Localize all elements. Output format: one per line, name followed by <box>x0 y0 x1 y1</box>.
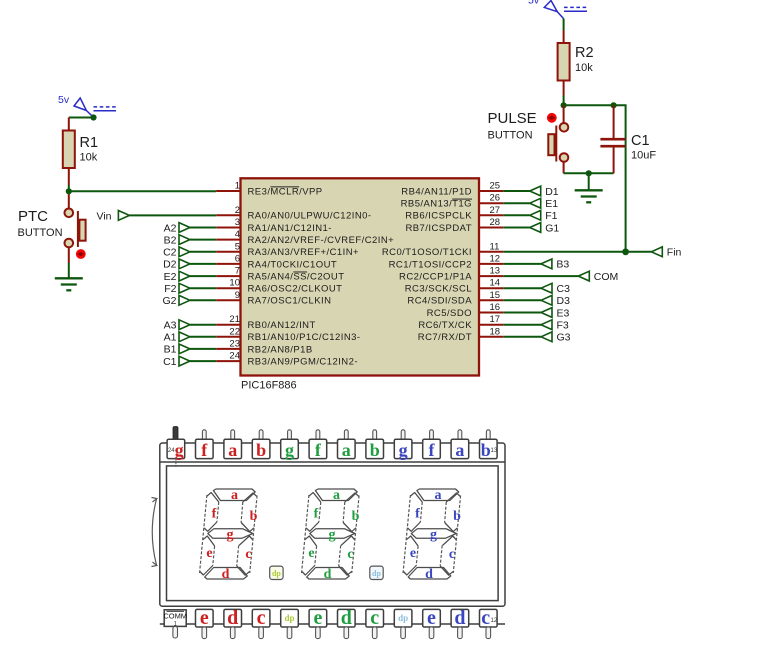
svg-text:RC6/TX/CK: RC6/TX/CK <box>418 320 472 331</box>
svg-text:BUTTON: BUTTON <box>488 130 533 142</box>
wire (button bottom to C1 bottom) <box>564 172 614 174</box>
node COM <box>578 271 618 283</box>
display digit 3 <box>402 489 461 579</box>
svg-text:RB2/AN8/P1B: RB2/AN8/P1B <box>248 344 313 355</box>
svg-text:d: d <box>454 607 465 629</box>
node C2 <box>163 247 190 259</box>
svg-text:12: 12 <box>490 253 501 264</box>
wire <box>503 263 541 265</box>
svg-text:B3: B3 <box>556 259 569 271</box>
svg-text:C2: C2 <box>163 247 177 259</box>
svg-text:RB1/AN10/P1C/C12IN3-: RB1/AN10/P1C/C12IN3- <box>248 332 361 343</box>
display bottom pin pad (c) <box>480 607 498 639</box>
pin 5 (RA3) <box>216 241 359 258</box>
svg-text:Vin: Vin <box>97 211 112 223</box>
junction (C1 top) <box>611 102 617 108</box>
svg-text:A2: A2 <box>164 222 177 234</box>
junction (ground tap) <box>586 170 592 176</box>
pin 27 (RB6) <box>405 205 503 222</box>
svg-text:13: 13 <box>491 448 498 454</box>
pin 12 (RC1) <box>389 253 504 270</box>
capacitor C1 <box>600 105 625 173</box>
svg-text:RA5/AN4/SS/C2OUT: RA5/AN4/SS/C2OUT <box>248 272 345 283</box>
wire <box>503 312 541 314</box>
svg-text:g: g <box>175 440 184 460</box>
display left bracket arrow <box>152 498 157 567</box>
wire <box>69 117 94 119</box>
svg-text:14: 14 <box>490 278 501 289</box>
svg-text:RA0/AN0/ULPWU/C12IN0-: RA0/AN0/ULPWU/C12IN0- <box>248 211 372 222</box>
display inner window <box>167 466 499 601</box>
svg-text:e: e <box>308 546 314 561</box>
svg-text:26: 26 <box>490 193 501 204</box>
svg-text:f: f <box>314 507 319 522</box>
display top pin pad 21 (b) <box>252 430 270 460</box>
node B3 <box>541 259 570 271</box>
wire <box>190 287 216 289</box>
wire <box>503 251 651 253</box>
resistor R2 <box>558 31 570 96</box>
svg-text:COMM: COMM <box>163 612 187 621</box>
svg-text:R1: R1 <box>80 135 99 151</box>
svg-text:24: 24 <box>229 351 240 362</box>
junction (Fin net) <box>622 248 629 255</box>
display bottom pin pad (dp) <box>281 609 299 638</box>
svg-text:f: f <box>415 507 420 522</box>
svg-text:a: a <box>231 488 238 503</box>
svg-text:17: 17 <box>490 314 501 325</box>
display rail line <box>160 461 505 463</box>
display package outline <box>160 443 505 606</box>
power 5v (left) <box>58 94 116 117</box>
svg-text:E2: E2 <box>164 271 177 283</box>
wire <box>564 105 626 252</box>
svg-text:g: g <box>285 440 294 460</box>
svg-text:E3: E3 <box>557 307 570 319</box>
svg-text:9: 9 <box>235 290 240 301</box>
svg-text:21: 21 <box>229 314 240 325</box>
svg-text:c: c <box>449 547 455 562</box>
svg-text:c: c <box>257 607 266 629</box>
svg-text:25: 25 <box>490 181 501 192</box>
svg-text:b: b <box>256 440 266 460</box>
svg-text:PULSE: PULSE <box>488 110 537 127</box>
svg-text:b: b <box>250 509 258 524</box>
svg-text:d: d <box>324 567 332 582</box>
svg-text:5v: 5v <box>58 94 70 106</box>
svg-text:RA2/AN2/VREF-/CVREF/C2IN+: RA2/AN2/VREF-/CVREF/C2IN+ <box>248 235 395 246</box>
svg-text:13: 13 <box>490 266 501 277</box>
wire <box>190 263 216 265</box>
node G3 <box>541 332 571 344</box>
svg-text:dp: dp <box>272 569 281 578</box>
svg-text:RC1/T1OSI/CCP2: RC1/T1OSI/CCP2 <box>389 259 472 270</box>
wire <box>503 190 529 192</box>
wire <box>190 360 216 362</box>
svg-text:15: 15 <box>490 290 501 301</box>
power 5v (right) <box>528 0 587 19</box>
svg-text:F2: F2 <box>164 283 176 295</box>
resistor R1 <box>63 118 75 186</box>
svg-text:23: 23 <box>229 338 240 349</box>
wire <box>190 324 216 326</box>
junction (power to R1 net) <box>90 114 96 120</box>
pin 13 (RC2) <box>399 266 503 283</box>
junction (R2 / button / C1 net) <box>561 102 567 108</box>
node B1 <box>164 344 190 356</box>
wire <box>190 275 216 277</box>
svg-text:b: b <box>453 509 461 524</box>
svg-text:D2: D2 <box>163 259 177 271</box>
button PTC <box>65 194 86 263</box>
pin 16 (RC5) <box>427 302 504 319</box>
pin 3 (RA1) <box>216 217 332 234</box>
display top pin pad 16 (g) <box>394 430 412 460</box>
svg-text:C1: C1 <box>631 133 650 149</box>
svg-text:22: 22 <box>229 326 240 337</box>
display digit 2 <box>301 489 360 579</box>
svg-text:b: b <box>370 440 380 460</box>
svg-text:Fin: Fin <box>667 247 682 259</box>
svg-text:1: 1 <box>235 181 240 192</box>
pin 9 (RA7) <box>216 290 331 307</box>
svg-text:e: e <box>206 546 212 561</box>
pin 17 (RC6) <box>418 314 503 331</box>
pin 23 (RB2) <box>216 338 312 355</box>
display bottom pin pad (e) <box>196 607 214 639</box>
wire <box>190 348 216 350</box>
svg-text:18: 18 <box>490 326 501 337</box>
svg-text:G3: G3 <box>557 332 571 344</box>
svg-text:f: f <box>201 440 208 460</box>
wire <box>503 275 578 277</box>
svg-text:27: 27 <box>490 205 501 216</box>
svg-text:F1: F1 <box>545 210 557 222</box>
wire <box>190 299 216 301</box>
node Fin <box>651 247 681 259</box>
svg-text:g: g <box>329 528 336 543</box>
display bottom pin pad (dp) <box>394 609 412 638</box>
wire <box>503 336 541 338</box>
svg-text:C3: C3 <box>557 283 571 295</box>
svg-text:f: f <box>315 440 322 460</box>
svg-text:RA1/AN1/C12IN1-: RA1/AN1/C12IN1- <box>248 223 332 234</box>
svg-text:B2: B2 <box>164 234 177 246</box>
pin 28 (RB7) <box>405 217 503 234</box>
svg-text:F3: F3 <box>557 320 569 332</box>
svg-text:d: d <box>425 567 433 582</box>
svg-text:10k: 10k <box>80 152 98 164</box>
display top pin pad 22 (a) <box>224 430 242 460</box>
node D1 <box>530 186 559 198</box>
node D3 <box>541 295 570 307</box>
svg-text:4: 4 <box>235 229 240 240</box>
svg-text:B1: B1 <box>164 344 177 356</box>
node E3 <box>541 307 570 319</box>
svg-text:12: 12 <box>491 618 498 624</box>
wire <box>503 202 529 204</box>
svg-text:d: d <box>227 607 238 629</box>
wire (to pin 1) <box>69 190 216 192</box>
svg-text:11: 11 <box>490 241 500 252</box>
svg-text:A3: A3 <box>164 320 177 332</box>
node C1 <box>163 356 190 368</box>
svg-text:RA4/T0CKI/C1OUT: RA4/T0CKI/C1OUT <box>248 259 338 270</box>
svg-text:PTC: PTC <box>18 208 48 225</box>
display bottom pad COMM pin 1 <box>163 610 187 638</box>
node B2 <box>164 234 190 246</box>
svg-text:RC0/T1OSO/T1CKI: RC0/T1OSO/T1CKI <box>382 247 472 258</box>
wire <box>68 185 70 191</box>
svg-text:RC2/CCP1/P1A: RC2/CCP1/P1A <box>399 272 472 283</box>
pin 6 (RA4) <box>216 253 337 270</box>
pin 21 (RB0) <box>216 314 316 331</box>
svg-text:7: 7 <box>235 266 240 277</box>
pin 4 (RA2) <box>216 229 394 246</box>
svg-text:BUTTON: BUTTON <box>18 227 63 239</box>
node A2 <box>164 222 190 234</box>
svg-text:RE3/MCLR/VPP: RE3/MCLR/VPP <box>248 186 323 197</box>
display bottom pin pad (c) <box>252 607 270 639</box>
svg-text:G1: G1 <box>545 222 559 234</box>
svg-text:G2: G2 <box>162 295 176 307</box>
node A3 <box>164 320 190 332</box>
svg-text:28: 28 <box>490 217 501 228</box>
svg-text:c: c <box>245 547 251 562</box>
svg-text:2: 2 <box>235 205 240 216</box>
svg-text:RC7/RX/DT: RC7/RX/DT <box>418 332 472 343</box>
svg-text:g: g <box>399 440 408 460</box>
svg-text:c: c <box>347 547 353 562</box>
display bottom pin pad (e) <box>309 607 327 639</box>
svg-text:16: 16 <box>490 302 501 313</box>
wire <box>190 336 216 338</box>
svg-text:5: 5 <box>235 241 240 252</box>
svg-text:RC3/SCK/SCL: RC3/SCK/SCL <box>405 284 472 295</box>
display top pin pad 17 (b) <box>366 430 384 460</box>
actuator marker (red dot) <box>76 249 86 259</box>
svg-text:e: e <box>313 607 322 629</box>
svg-text:dp: dp <box>284 613 294 623</box>
node A1 <box>164 332 190 344</box>
wire <box>503 287 541 289</box>
svg-text:RB5/AN13/T1G: RB5/AN13/T1G <box>401 199 472 210</box>
node G2 <box>162 295 189 307</box>
wire <box>503 299 541 301</box>
node Vin <box>97 211 130 223</box>
wire <box>563 96 565 106</box>
pin 24 (RB3) <box>216 351 358 368</box>
pin 18 (RC7) <box>418 326 504 343</box>
svg-text:5v: 5v <box>528 0 540 7</box>
pin 2 (RA0) <box>216 205 371 222</box>
ground (PTC) <box>55 278 83 290</box>
svg-text:RB7/ICSPDAT: RB7/ICSPDAT <box>405 223 472 234</box>
display top pin pad 24 (g) <box>167 427 185 468</box>
display top pin pad 13 (b) <box>480 430 498 460</box>
svg-text:RB3/AN9/PGM/C12IN2-: RB3/AN9/PGM/C12IN2- <box>248 357 358 368</box>
svg-text:RA3/AN3/VREF+/C1IN+: RA3/AN3/VREF+/C1IN+ <box>248 247 360 258</box>
svg-text:c: c <box>481 607 490 629</box>
svg-text:e: e <box>427 607 436 629</box>
display top pin pad 23 (f) <box>196 430 214 460</box>
svg-text:g: g <box>227 528 234 543</box>
svg-text:6: 6 <box>235 253 240 264</box>
svg-text:C1: C1 <box>163 356 177 368</box>
svg-text:D1: D1 <box>545 186 559 198</box>
wire <box>588 173 590 189</box>
svg-text:PIC16F886: PIC16F886 <box>241 380 297 392</box>
node E1 <box>530 198 559 210</box>
svg-text:b: b <box>352 509 360 524</box>
svg-text:g: g <box>430 528 437 543</box>
display top pin pad 20 (g) <box>281 430 299 460</box>
wire <box>503 214 529 216</box>
svg-text:d: d <box>222 567 230 582</box>
pin 1 (RE3) <box>216 181 322 198</box>
svg-text:e: e <box>410 546 416 561</box>
node D2 <box>163 259 190 271</box>
junction (R1 / pin1 / button) <box>66 188 72 194</box>
display bottom pin pad (d) <box>451 607 469 639</box>
svg-text:RA7/OSC1/CLKIN: RA7/OSC1/CLKIN <box>248 296 332 307</box>
svg-text:E1: E1 <box>545 198 558 210</box>
display top pin pad 18 (a) <box>338 430 356 460</box>
display bottom pin pad (c) <box>366 607 384 639</box>
svg-text:f: f <box>429 440 436 460</box>
display top pin pad 14 (a) <box>451 430 469 460</box>
pin 22 (RB1) <box>216 326 360 343</box>
svg-text:COM: COM <box>594 271 619 283</box>
node F2 <box>164 283 190 295</box>
pin 26 (RB5) <box>401 193 504 210</box>
pin 10 (RA6) <box>216 278 342 295</box>
svg-text:f: f <box>212 507 217 522</box>
svg-text:RC4/SDI/SDA: RC4/SDI/SDA <box>407 296 472 307</box>
svg-text:R2: R2 <box>575 45 594 61</box>
display bottom pin pad (d) <box>224 607 242 639</box>
svg-text:a: a <box>342 440 351 460</box>
svg-text:dp: dp <box>398 613 408 623</box>
pin 14 (RC3) <box>405 278 504 295</box>
display bottom pin pad (e) <box>423 607 441 639</box>
svg-text:b: b <box>481 440 491 460</box>
svg-text:dp: dp <box>372 569 381 578</box>
svg-text:24: 24 <box>168 448 175 454</box>
svg-text:RA6/OSC2/CLKOUT: RA6/OSC2/CLKOUT <box>248 284 343 295</box>
pin 11 (RC0) <box>382 241 503 258</box>
node G1 <box>530 222 560 234</box>
svg-text:e: e <box>200 607 209 629</box>
display dp pad 2 <box>370 566 383 579</box>
svg-text:d: d <box>341 607 352 629</box>
svg-text:RC5/SDO: RC5/SDO <box>427 308 472 319</box>
wire <box>129 214 216 216</box>
svg-text:10: 10 <box>229 278 240 289</box>
svg-text:3: 3 <box>235 217 240 228</box>
svg-text:10k: 10k <box>575 62 593 74</box>
display top pin pad 19 (f) <box>309 430 327 460</box>
pin 15 (RC4) <box>407 290 503 307</box>
pin 7 (RA5) <box>216 266 344 283</box>
node F3 <box>541 320 569 332</box>
wire <box>503 227 529 229</box>
svg-text:10uF: 10uF <box>631 150 656 162</box>
svg-text:a: a <box>333 488 340 503</box>
svg-text:RB6/ICSPCLK: RB6/ICSPCLK <box>405 211 472 222</box>
svg-text:RB0/AN12/INT: RB0/AN12/INT <box>248 320 316 331</box>
IC U1 PIC16F886 body <box>241 178 480 375</box>
button PULSE (mirrored) <box>548 105 568 173</box>
wire <box>190 239 216 241</box>
node C3 <box>541 283 570 295</box>
svg-text:a: a <box>228 440 237 460</box>
svg-text:A1: A1 <box>164 332 177 344</box>
ground (pulse/C1) <box>575 190 603 202</box>
svg-text:a: a <box>435 488 442 503</box>
wire <box>503 324 541 326</box>
svg-text:c: c <box>370 607 379 629</box>
display bottom rail line <box>160 623 505 625</box>
wire <box>68 263 70 278</box>
display top pin pad 15 (f) <box>423 430 441 460</box>
node E2 <box>164 271 190 283</box>
display dp pad 1 <box>270 566 283 579</box>
display bottom pin pad (d) <box>338 607 356 639</box>
wire <box>563 19 565 31</box>
node F1 <box>530 210 558 222</box>
actuator marker (red dot) <box>547 113 557 123</box>
display digit 1 <box>199 489 258 579</box>
svg-text:a: a <box>455 440 464 460</box>
svg-text:RB4/AN11/P1D: RB4/AN11/P1D <box>401 186 472 197</box>
pin 25 (RB4) <box>401 181 503 198</box>
svg-text:D3: D3 <box>557 295 571 307</box>
wire <box>190 227 216 229</box>
wire <box>190 251 216 253</box>
